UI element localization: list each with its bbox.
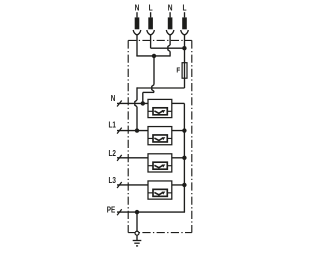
svg-text:L: L [149, 3, 153, 13]
svg-text:L1: L1 [109, 121, 116, 130]
svg-text:L2: L2 [109, 150, 116, 159]
svg-text:L3: L3 [109, 176, 116, 185]
svg-text:N: N [135, 3, 140, 13]
svg-text:PE: PE [107, 206, 116, 215]
svg-text:L: L [182, 3, 186, 13]
svg-text:N: N [168, 3, 173, 13]
svg-text:N: N [111, 94, 116, 103]
svg-text:F: F [176, 67, 180, 75]
